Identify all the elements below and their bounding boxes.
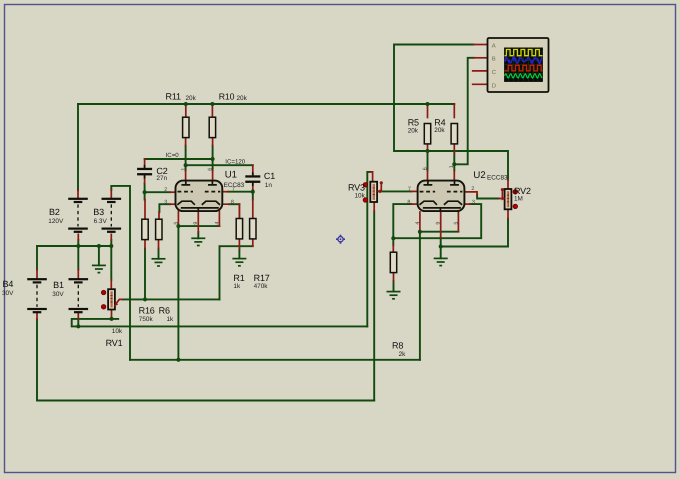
lead U2 bottom pins bbox=[420, 212, 459, 238]
lead RV1 wiper arm bbox=[115, 299, 122, 304]
potentiometer RV2 handles bbox=[513, 190, 517, 209]
wire U1 heater strap bbox=[178, 225, 219, 227]
svg-text:10k: 10k bbox=[355, 193, 366, 200]
svg-text:4: 4 bbox=[214, 222, 220, 225]
potentiometer RV3 handles bbox=[363, 183, 367, 203]
potentiometer RV2 1M body bbox=[505, 189, 512, 209]
node B1- loop bbox=[76, 324, 80, 328]
wire IC=120 net bbox=[186, 164, 253, 166]
lead U2 right plate bbox=[453, 171, 455, 182]
lead R16 bottom bbox=[144, 239, 146, 249]
potentiometer RV3 10k body bbox=[370, 182, 377, 202]
svg-text:5: 5 bbox=[173, 222, 179, 225]
wire RV3 feed riser bbox=[367, 172, 370, 327]
node R8 top bbox=[391, 236, 395, 240]
node C2/pin2/R16 bbox=[143, 190, 147, 194]
lead C2 top bbox=[144, 159, 146, 168]
lead U1 pin8 stub bbox=[222, 204, 240, 218]
svg-text:B1: B1 bbox=[53, 280, 64, 290]
node U2 ground bbox=[439, 245, 443, 249]
battery B2 120V bbox=[68, 198, 88, 233]
lead R5 top bbox=[427, 104, 429, 118]
wire U1 heater riser bbox=[177, 226, 179, 360]
lead scope D stub bbox=[473, 83, 488, 85]
svg-text:1: 1 bbox=[181, 168, 187, 171]
svg-text:1k: 1k bbox=[167, 316, 175, 323]
lead U2 left plate bbox=[427, 171, 429, 182]
svg-text:R10: R10 bbox=[219, 92, 235, 102]
wire R8 bottom to ground bbox=[393, 281, 395, 291]
wire B1 bottom stub bbox=[77, 319, 79, 327]
node C1/pin7/R17 bbox=[251, 190, 255, 194]
svg-text:B4: B4 bbox=[3, 279, 14, 289]
svg-text:30V: 30V bbox=[52, 291, 64, 298]
svg-text:R8: R8 bbox=[392, 341, 403, 351]
wire R16 bottom bbox=[144, 249, 146, 300]
node R16/wiper bbox=[143, 297, 147, 301]
lead R6 top bbox=[158, 212, 160, 219]
wire U1 cathode pin9 to ground bbox=[197, 232, 199, 238]
resistor R1 1k bbox=[236, 219, 242, 239]
resistor R10 20k bbox=[209, 117, 215, 137]
lead RV3 wiper arm bbox=[377, 183, 381, 192]
wire R6 bottom bbox=[158, 249, 160, 259]
resistor R11 20k bbox=[183, 117, 189, 137]
resistor R4 20k bbox=[451, 124, 457, 144]
lead U2 pin2 stub bbox=[464, 192, 477, 195]
svg-text:ECC83: ECC83 bbox=[487, 175, 508, 182]
node U1 heater strap bbox=[176, 224, 180, 228]
svg-text:A: A bbox=[492, 42, 496, 49]
svg-text:120V: 120V bbox=[48, 218, 64, 225]
wire ground stub battery bbox=[98, 246, 100, 265]
potentiometer RV2 wiper arrow bbox=[502, 197, 506, 201]
scope trace channel B blue bbox=[505, 57, 542, 64]
node battery ground bbox=[97, 244, 101, 248]
svg-text:IC=120: IC=120 bbox=[225, 158, 245, 165]
ground R1 bbox=[232, 259, 246, 266]
svg-text:9: 9 bbox=[193, 222, 199, 225]
node R5 top bbox=[426, 102, 430, 106]
lead RV2 wiper arm bbox=[499, 189, 505, 198]
svg-text:C1: C1 bbox=[264, 171, 275, 181]
potentiometer RV1 handles bbox=[101, 290, 105, 309]
lead scope B stub bbox=[474, 57, 488, 59]
svg-text:R1: R1 bbox=[233, 273, 244, 283]
wire wiper to R17 riser bbox=[220, 246, 253, 299]
wire R11 lead middle bbox=[185, 146, 187, 171]
lead C1 bottom bbox=[252, 182, 254, 190]
wire RV1 bottom loop bbox=[72, 319, 368, 327]
WIRES-GREEN bbox=[37, 45, 508, 401]
node U2 heater strap bbox=[418, 230, 422, 234]
lead R8 bottom bbox=[393, 272, 395, 281]
svg-text:3: 3 bbox=[164, 200, 167, 206]
node R4/scope B tap bbox=[452, 162, 456, 166]
potentiometer RV3 wiper arrow bbox=[377, 189, 381, 193]
svg-text:20k: 20k bbox=[434, 127, 445, 134]
svg-text:20k: 20k bbox=[186, 95, 197, 102]
capacitor C1 1n bbox=[245, 172, 260, 186]
wire B+ left drop to B2 bbox=[77, 104, 79, 190]
wire R1 bottom bbox=[238, 248, 240, 258]
lead RV1 bottom bbox=[111, 310, 113, 319]
ground R8 bbox=[387, 292, 401, 299]
lead R1 top bbox=[238, 204, 240, 218]
capacitor C2 27n bbox=[137, 165, 152, 179]
svg-text:2: 2 bbox=[471, 186, 474, 192]
wire U1 pin 7 / C1 / R17 node bbox=[228, 190, 253, 200]
svg-text:27n: 27n bbox=[156, 175, 167, 182]
battery B4 30V bbox=[27, 278, 47, 313]
svg-text:8: 8 bbox=[407, 199, 410, 205]
lead C1 top bbox=[252, 165, 254, 175]
svg-text:470k: 470k bbox=[254, 283, 269, 290]
lead B3 pins bbox=[110, 190, 112, 240]
lead U1 bottom pins bbox=[178, 211, 219, 232]
lead U1 right plate bbox=[212, 171, 214, 182]
wire R4 lead middle bbox=[453, 153, 455, 171]
svg-text:B: B bbox=[492, 56, 496, 63]
lead U2 pin8 stub bbox=[412, 203, 419, 205]
svg-text:750k: 750k bbox=[139, 316, 154, 323]
wire scope A net bbox=[394, 45, 508, 180]
wire B4 bottom to bottom rail bbox=[37, 319, 374, 400]
node heater/U1 riser bbox=[176, 358, 180, 362]
svg-text:C: C bbox=[492, 69, 497, 76]
potentiometer RV2 wiper cap bbox=[501, 188, 504, 191]
lead U1 pin3 stub bbox=[170, 203, 177, 205]
lead R6 bottom bbox=[158, 239, 160, 249]
svg-text:6: 6 bbox=[422, 167, 428, 170]
lead scope C stub bbox=[473, 70, 488, 72]
node IC=0 tap on R10 lead bbox=[211, 157, 215, 161]
lead RV3 bottom bbox=[373, 202, 375, 211]
lead R17 top bbox=[252, 200, 254, 219]
wire U2 pin 8 / pin 3 / R8 node bbox=[393, 204, 481, 238]
svg-text:IC=0: IC=0 bbox=[166, 152, 180, 159]
lead B1 pins bbox=[77, 270, 79, 319]
svg-text:20k: 20k bbox=[408, 128, 419, 135]
svg-text:6: 6 bbox=[207, 168, 213, 171]
svg-text:U1: U1 bbox=[225, 170, 237, 181]
svg-text:R17: R17 bbox=[254, 273, 270, 283]
svg-text:D: D bbox=[492, 83, 496, 90]
lead R8 top bbox=[392, 245, 394, 253]
wire RV2 bottom to U2 ground node bbox=[441, 219, 508, 247]
node R10 top bbox=[210, 102, 214, 106]
wire C2 bottom to U1 pin 2 bbox=[145, 184, 170, 200]
node IC=120 tap on R11 lead bbox=[184, 163, 188, 167]
svg-text:R6: R6 bbox=[159, 305, 170, 315]
wire B3 top feed bbox=[111, 186, 130, 360]
wire U2 heater strap bbox=[420, 231, 459, 233]
lead R4 bottom stub bbox=[453, 145, 455, 153]
svg-text:8: 8 bbox=[231, 199, 234, 205]
wire B2- to B1+ column bbox=[77, 240, 79, 270]
wire heater 6.3V rail bbox=[130, 359, 420, 361]
lead scope A stub bbox=[474, 44, 488, 46]
wire RV1 wiper line bbox=[123, 298, 220, 300]
wire B+ top rail bbox=[78, 103, 454, 105]
potentiometer RV3 wiper cap bbox=[380, 181, 383, 184]
node RV1 bottom loop bbox=[110, 317, 114, 321]
svg-text:3: 3 bbox=[472, 200, 475, 206]
lead U1 left plate bbox=[185, 171, 187, 182]
ground R6 bbox=[152, 259, 166, 266]
wire B3- down to RV1 top bbox=[110, 240, 112, 280]
svg-text:U2: U2 bbox=[473, 170, 485, 181]
svg-text:6.3V: 6.3V bbox=[94, 218, 108, 225]
potentiometer RV1 10k body bbox=[108, 289, 115, 309]
lead R11 bottom stub bbox=[185, 137, 187, 145]
wire U1 pin 8 to R1 bbox=[229, 203, 239, 205]
lead R5 bottom stub bbox=[427, 145, 429, 153]
wire R10 lead middle bbox=[212, 146, 214, 171]
lead R17 bottom bbox=[252, 239, 254, 246]
lead R4 top bbox=[453, 104, 455, 118]
node B2-/B1+ bbox=[76, 244, 80, 248]
resistor R5 20k bbox=[424, 124, 430, 144]
svg-text:10k: 10k bbox=[112, 328, 123, 335]
battery B1 30V bbox=[69, 278, 89, 313]
lead RV3 top bbox=[370, 172, 372, 182]
wire scope B net bbox=[454, 58, 473, 165]
svg-text:R11: R11 bbox=[166, 92, 182, 102]
lead C2 bottom bbox=[144, 174, 146, 183]
battery B3 6.3V bbox=[102, 198, 122, 233]
svg-text:R4: R4 bbox=[434, 117, 445, 127]
resistor R16 750k bbox=[142, 219, 148, 239]
svg-text:1k: 1k bbox=[233, 283, 241, 290]
scope trace channel A yellow bbox=[505, 50, 543, 56]
svg-text:2: 2 bbox=[164, 187, 167, 193]
wire RV3 bottom drop bbox=[373, 211, 375, 400]
wire RV3 wiper to U2 pin 7 bbox=[381, 190, 411, 192]
LEADS-RED bbox=[37, 45, 508, 320]
wire battery common bbox=[37, 245, 111, 247]
lead U1 pin2 stub bbox=[170, 191, 177, 193]
svg-text:5: 5 bbox=[453, 222, 459, 225]
lead U2 pin7 stub bbox=[412, 190, 419, 192]
svg-text:1M: 1M bbox=[514, 196, 523, 203]
potentiometer RV1 wiper arrow bbox=[116, 299, 119, 303]
svg-text:RV2: RV2 bbox=[514, 186, 531, 196]
lead RV2 bottom bbox=[507, 210, 509, 219]
wire R8 top stub bbox=[392, 238, 394, 245]
lead R1 bottom bbox=[238, 239, 240, 249]
oscilloscope body bbox=[488, 38, 549, 92]
lead RV1 top bbox=[110, 280, 112, 289]
scope trace channel D green bbox=[505, 74, 543, 78]
wire IC=0 net bbox=[145, 158, 213, 160]
svg-text:RV3: RV3 bbox=[348, 183, 365, 193]
resistor R8 2k bbox=[390, 252, 396, 272]
scope trace channel C red bbox=[505, 65, 543, 71]
svg-text:1: 1 bbox=[449, 165, 455, 168]
svg-text:1n: 1n bbox=[265, 182, 273, 189]
node R11 top bbox=[184, 102, 188, 106]
svg-text:20k: 20k bbox=[237, 95, 248, 102]
svg-text:7: 7 bbox=[232, 186, 235, 192]
lead U2 pin3 stub bbox=[464, 203, 470, 205]
lead R10 bottom stub bbox=[212, 137, 214, 145]
svg-text:7: 7 bbox=[408, 186, 411, 192]
lead B4 pins bbox=[36, 270, 38, 320]
op-amp U2 ECC83 tube body bbox=[418, 181, 465, 212]
svg-text:RV1: RV1 bbox=[106, 338, 123, 348]
svg-text:B2: B2 bbox=[49, 207, 60, 217]
svg-text:4: 4 bbox=[415, 222, 421, 225]
wire U1 pin 3 to R6 bbox=[159, 204, 170, 212]
lead R16 top bbox=[144, 200, 146, 220]
svg-text:R16: R16 bbox=[139, 305, 155, 315]
lead R10 top bbox=[211, 104, 213, 117]
lead RV2 top bbox=[507, 180, 509, 189]
resistor R17 470k bbox=[250, 219, 256, 239]
lead B2 pins bbox=[77, 190, 79, 240]
lead U1 pin7 stub bbox=[222, 191, 229, 193]
svg-text:2k: 2k bbox=[399, 351, 407, 358]
wire R5 lead middle bbox=[427, 153, 429, 171]
svg-text:30V: 30V bbox=[2, 290, 14, 297]
ground battery common bbox=[92, 265, 106, 272]
wire U2 pin 2 to RV2 wiper bbox=[477, 195, 499, 199]
node R5 lead / scope A bbox=[426, 149, 430, 153]
node B3- bbox=[109, 244, 113, 248]
resistor R6 1k bbox=[156, 219, 162, 239]
ground U2 pin9 bbox=[434, 258, 448, 265]
ground U1 cathode pin9 bbox=[191, 238, 205, 245]
node origin marker bbox=[336, 235, 345, 244]
svg-text:R5: R5 bbox=[408, 118, 419, 128]
wire heater rail riser to U2 bbox=[419, 233, 421, 360]
op-amp U1 ECC83 tube body bbox=[176, 181, 223, 212]
svg-text:B3: B3 bbox=[93, 207, 104, 217]
svg-text:9: 9 bbox=[436, 222, 442, 225]
wire B4 top stub bbox=[36, 246, 38, 270]
lead R11 top bbox=[185, 104, 187, 117]
wire U2 pin 9 to ground bbox=[440, 238, 442, 259]
